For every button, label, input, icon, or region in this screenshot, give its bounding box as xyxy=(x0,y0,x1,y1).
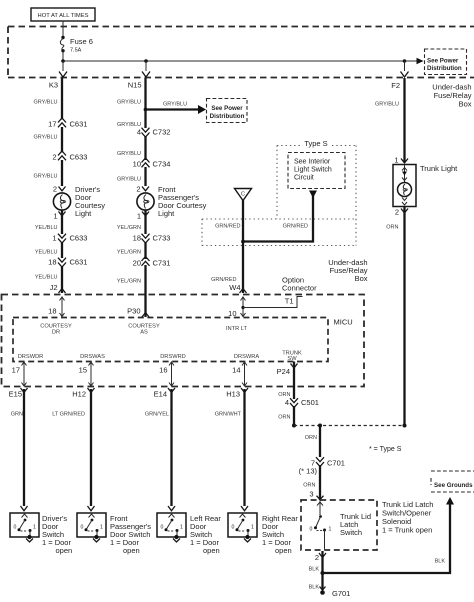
svg-text:GRY/BLU: GRY/BLU xyxy=(117,151,141,157)
svg-text:GRY/BLU: GRY/BLU xyxy=(33,100,57,106)
MICU pin 17 exit wire xyxy=(12,362,27,387)
trunk light pin 1 xyxy=(394,156,408,165)
svg-text:ORN: ORN xyxy=(303,483,315,489)
connector C701 pin 7 xyxy=(299,457,345,475)
connector H12 xyxy=(72,388,94,399)
svg-text:2: 2 xyxy=(136,185,140,194)
svg-text:Box: Box xyxy=(355,274,368,283)
connector P30 xyxy=(127,307,149,318)
connector C732 pin 4 xyxy=(137,128,171,138)
wire arrow branch to see power distribution xyxy=(146,102,207,115)
wire GRY/BLU junction-C732 xyxy=(117,110,146,129)
wire GRY/BLU C732-C734 xyxy=(117,136,146,160)
svg-text:Light: Light xyxy=(75,209,92,218)
wire GRN/RED C-junction xyxy=(215,200,243,293)
svg-text:* = Type S: * = Type S xyxy=(369,446,402,453)
switch front passenger's door switch xyxy=(77,513,106,539)
svg-text:See Interior: See Interior xyxy=(294,159,331,166)
svg-text:DRSWRD: DRSWRD xyxy=(160,354,186,360)
svg-text:1: 1 xyxy=(137,212,141,221)
svg-text:0: 0 xyxy=(161,525,164,531)
svg-text:14: 14 xyxy=(232,366,240,375)
wire GRN/YEL to left rear door switch xyxy=(145,389,175,511)
wire ORN dashed jumper xyxy=(294,425,405,427)
svg-text:ORN: ORN xyxy=(386,225,398,231)
label trunk lid latch switch/opener solenoid xyxy=(382,500,433,535)
svg-text:GRY/BLU: GRY/BLU xyxy=(117,177,141,183)
svg-text:DR: DR xyxy=(52,330,60,336)
connector N15 xyxy=(128,61,150,90)
svg-text:C: C xyxy=(241,192,245,198)
wire BLK latch-junction xyxy=(309,551,323,573)
svg-text:C633: C633 xyxy=(70,153,88,162)
label HOT AT ALL TIMES xyxy=(31,8,95,21)
svg-text:F2: F2 xyxy=(391,81,400,90)
svg-text:C733: C733 xyxy=(153,234,171,243)
svg-text:C731: C731 xyxy=(153,259,171,268)
MICU pin name COURTESY AS xyxy=(128,324,160,336)
junction GRY/BLU branch xyxy=(144,108,148,112)
wire LT GRN/RED to front passenger's door switch xyxy=(52,389,94,511)
wire GRN/RED junction to interior light switch xyxy=(243,193,313,242)
junction F2 tap xyxy=(403,59,407,63)
svg-text:T1: T1 xyxy=(285,297,294,306)
MICU pin name TRUNK SW xyxy=(282,351,302,363)
svg-text:YEL/GRN: YEL/GRN xyxy=(117,279,141,285)
MICU pin name DRSWRA xyxy=(234,354,259,360)
svg-text:0: 0 xyxy=(310,527,313,533)
connector E15 xyxy=(9,388,28,399)
junction ORN mid xyxy=(318,424,322,428)
connector C731 pin 20 xyxy=(133,257,171,268)
MICU pin name INTR LT xyxy=(226,326,248,332)
switch trunk lid latch switch internals xyxy=(310,500,332,550)
svg-text:GRN/RED: GRN/RED xyxy=(211,277,236,283)
fuse Fuse 6 7.5A xyxy=(60,36,93,61)
svg-text:Light: Light xyxy=(158,209,175,218)
svg-text:E15: E15 xyxy=(9,390,22,399)
svg-text:Fuse 6: Fuse 6 xyxy=(70,37,93,46)
svg-text:18: 18 xyxy=(48,307,56,316)
svg-text:open: open xyxy=(203,546,220,555)
MICU pin 14 exit wire xyxy=(232,362,247,387)
svg-text:BLK: BLK xyxy=(309,567,320,573)
svg-text:YEL/BLU: YEL/BLU xyxy=(35,225,58,231)
junction GRN/RED xyxy=(241,240,245,244)
lamp front passenger's door courtesy light pin 1 xyxy=(137,212,149,221)
svg-text:1 = Trunk open: 1 = Trunk open xyxy=(382,526,432,535)
wire ORN C501-junction xyxy=(278,406,294,426)
svg-text:2: 2 xyxy=(53,185,57,194)
svg-text:GRY/BLU: GRY/BLU xyxy=(33,174,57,180)
svg-text:LT GRN/RED: LT GRN/RED xyxy=(52,412,85,418)
connector F2 xyxy=(391,61,408,90)
svg-text:BLK: BLK xyxy=(309,585,320,591)
wire YEL/GRN lamp-C733 xyxy=(117,210,146,234)
svg-text:ORN: ORN xyxy=(278,415,290,421)
MICU pin 16 exit wire xyxy=(159,362,174,387)
see interior light switch circuit box xyxy=(288,153,345,189)
svg-text:open: open xyxy=(56,546,73,555)
svg-text:7.5A: 7.5A xyxy=(70,48,82,54)
svg-text:SW: SW xyxy=(287,356,297,362)
svg-text:(* 13): (* 13) xyxy=(299,467,318,476)
svg-text:15: 15 xyxy=(79,366,87,375)
svg-text:C501: C501 xyxy=(301,398,319,407)
svg-text:P30: P30 xyxy=(127,307,140,316)
arrow into interior light switch circuit xyxy=(309,191,317,199)
wire BLK junction to see grounds xyxy=(323,503,451,573)
connector C631 pin 18 xyxy=(48,258,87,268)
label option connector xyxy=(282,276,317,293)
svg-text:20: 20 xyxy=(133,259,141,268)
svg-text:J2: J2 xyxy=(50,283,58,292)
connector C734 pin 10 xyxy=(133,158,171,169)
svg-text:GRN/RED: GRN/RED xyxy=(283,224,308,230)
svg-text:16: 16 xyxy=(159,366,167,375)
connector C733 pin 18 xyxy=(133,234,171,244)
svg-text:G701: G701 xyxy=(332,589,350,598)
wire W4 to MICU pin 10 xyxy=(228,297,245,319)
arrow to see power distribution top xyxy=(405,58,424,64)
svg-text:GRN/RED: GRN/RED xyxy=(215,224,240,230)
svg-text:K3: K3 xyxy=(49,81,58,90)
svg-text:10: 10 xyxy=(228,309,236,318)
svg-text:3: 3 xyxy=(309,490,313,499)
svg-text:DRSWRA: DRSWRA xyxy=(234,354,259,360)
svg-text:C631: C631 xyxy=(70,258,88,267)
MICU box xyxy=(13,318,353,362)
svg-text:See Power: See Power xyxy=(211,105,243,112)
svg-text:BLK: BLK xyxy=(435,559,446,565)
wire F2 GRY/BLU to trunk light xyxy=(375,78,405,162)
svg-text:1: 1 xyxy=(394,156,398,165)
connector W4 xyxy=(211,277,246,293)
wire GRY/BLU C734-lamp xyxy=(117,167,146,186)
junction BLK xyxy=(320,571,324,575)
svg-text:See Power: See Power xyxy=(427,57,459,64)
svg-text:2: 2 xyxy=(315,553,319,562)
svg-text:1: 1 xyxy=(251,525,254,531)
latch switch pin 2 xyxy=(315,553,326,562)
MICU pin name DRSWDR xyxy=(18,354,44,360)
svg-text:10: 10 xyxy=(133,160,141,169)
ground under front passenger's door switch xyxy=(93,539,100,543)
bus wire from fuse xyxy=(63,60,406,62)
svg-text:1: 1 xyxy=(52,234,56,243)
svg-text:4: 4 xyxy=(137,128,141,137)
svg-text:Switch: Switch xyxy=(340,528,362,537)
MICU pin name DRSWAS xyxy=(80,354,105,360)
connector T1 option xyxy=(241,297,302,310)
svg-text:1: 1 xyxy=(53,212,57,221)
svg-text:GRY/BLU: GRY/BLU xyxy=(375,102,399,108)
switch driver's door switch xyxy=(10,513,39,539)
connector C triangle xyxy=(235,189,252,201)
svg-text:YEL/BLU: YEL/BLU xyxy=(35,250,58,256)
svg-text:GRY/BLU: GRY/BLU xyxy=(33,135,57,141)
wire YEL/GRN C731-P30 xyxy=(117,265,146,317)
dotted option region type S xyxy=(277,139,356,219)
wire ORN C701-latch switch xyxy=(303,465,320,500)
svg-text:Type S: Type S xyxy=(304,139,327,148)
junction ORN right xyxy=(403,424,407,428)
svg-text:MICU: MICU xyxy=(334,318,353,327)
lamp front passenger's door courtesy light pin 2 xyxy=(136,185,149,194)
svg-text:2: 2 xyxy=(395,208,399,217)
wire ORN junction-C701 xyxy=(305,426,320,458)
MICU pin 15 exit wire xyxy=(79,362,94,387)
svg-text:P24: P24 xyxy=(277,367,290,376)
dotted region GRN/RED harness xyxy=(202,219,356,246)
junction N15 tap xyxy=(144,59,148,63)
svg-text:18: 18 xyxy=(48,258,56,267)
wire hot feed to fuse xyxy=(62,21,64,37)
svg-text:N15: N15 xyxy=(128,81,142,90)
svg-text:0: 0 xyxy=(14,525,17,531)
wire YEL/BLU lamp-C633 xyxy=(35,210,62,234)
connector C501 pin 4 xyxy=(285,398,319,408)
svg-text:C732: C732 xyxy=(153,128,171,137)
connector J2 xyxy=(50,283,66,293)
svg-text:GRN/YEL: GRN/YEL xyxy=(145,412,169,418)
svg-text:open: open xyxy=(123,546,140,555)
lamp driver's door courtesy light pin 1 xyxy=(53,212,65,221)
svg-text:0: 0 xyxy=(232,525,235,531)
ground G701 xyxy=(320,589,350,598)
switch right rear door switch xyxy=(228,513,257,539)
label left rear door switch xyxy=(190,514,221,555)
svg-text:0: 0 xyxy=(81,525,84,531)
wire ORN trunk light to junction xyxy=(386,207,404,426)
svg-text:INTR LT: INTR LT xyxy=(226,326,248,332)
label driver's door switch xyxy=(42,514,72,555)
svg-text:DRSWDR: DRSWDR xyxy=(18,354,44,360)
see grounds box xyxy=(431,471,474,492)
ground under left rear door switch xyxy=(173,539,180,543)
svg-text:YEL/GRN: YEL/GRN xyxy=(117,250,141,256)
svg-text:1: 1 xyxy=(180,525,183,531)
wire GRY/BLU C631-C633 xyxy=(33,127,62,153)
connector K3 xyxy=(49,61,67,90)
svg-text:Distribution: Distribution xyxy=(210,113,245,120)
wire N15 GRY/BLU upper xyxy=(117,78,146,110)
lamp driver's door courtesy light pin 2 xyxy=(53,185,66,194)
MICU pin name DRSWRD xyxy=(160,354,186,360)
MICU pin name COURTESY DR xyxy=(40,324,72,336)
svg-text:18: 18 xyxy=(133,234,141,243)
svg-text:Distribution: Distribution xyxy=(427,65,462,72)
svg-text:GRN/WHT: GRN/WHT xyxy=(215,412,242,418)
wire GRY/BLU C633-lamp xyxy=(33,160,62,186)
wire YEL/GRN C733-C731 xyxy=(117,242,146,259)
wire GRN/WHT to right rear door switch xyxy=(215,389,248,511)
svg-text:C701: C701 xyxy=(327,459,345,468)
svg-text:ORN: ORN xyxy=(305,435,317,441)
switch trunk lid latch switch box xyxy=(301,500,377,550)
connector P24 xyxy=(277,364,298,377)
svg-text:YEL/GRN: YEL/GRN xyxy=(117,225,141,231)
wire GRN to driver's door switch xyxy=(11,389,28,511)
svg-text:See Grounds: See Grounds xyxy=(434,482,473,489)
lamp trunk light xyxy=(393,164,458,207)
wire J2 to MICU pin 18 xyxy=(48,297,64,318)
svg-text:GRY/BLU: GRY/BLU xyxy=(117,100,141,106)
svg-text:Trunk Light: Trunk Light xyxy=(420,164,458,173)
svg-text:1: 1 xyxy=(329,527,332,533)
switch left rear door switch xyxy=(157,513,186,539)
lamp front passenger's door courtesy light xyxy=(137,185,207,218)
svg-text:GRY/BLU: GRY/BLU xyxy=(163,102,187,108)
under-dash fuse/relay box top boundary xyxy=(8,27,474,78)
svg-text:W4: W4 xyxy=(229,283,240,292)
trunk light pin 2 xyxy=(395,208,408,217)
svg-text:C734: C734 xyxy=(153,160,171,169)
svg-text:4: 4 xyxy=(285,398,289,407)
svg-text:Circuit: Circuit xyxy=(294,175,314,182)
under-dash fuse/relay box lower boundary xyxy=(2,295,365,387)
svg-text:DRSWAS: DRSWAS xyxy=(80,354,105,360)
svg-text:C633: C633 xyxy=(70,234,88,243)
junction fuse to bus xyxy=(61,59,65,63)
connector E14 xyxy=(154,388,175,399)
svg-text:2: 2 xyxy=(52,153,56,162)
connector C631 pin 17 xyxy=(48,118,87,129)
wire YEL/BLU C633-C631 xyxy=(35,242,62,258)
svg-text:YEL/BLU: YEL/BLU xyxy=(35,275,58,281)
wire K3 GRY/BLU upper xyxy=(33,78,62,120)
svg-text:C631: C631 xyxy=(70,120,88,129)
ground under right rear door switch xyxy=(244,539,251,543)
wire BLK junction-G701 xyxy=(309,573,326,591)
svg-text:AS: AS xyxy=(140,330,148,336)
see power distribution box top right xyxy=(425,49,467,75)
lamp driver's door courtesy light xyxy=(53,185,105,218)
svg-text:17: 17 xyxy=(48,120,56,129)
connector H13 xyxy=(226,388,248,399)
svg-text:E14: E14 xyxy=(154,390,167,399)
svg-text:Light Switch: Light Switch xyxy=(294,167,332,174)
arrow to see grounds xyxy=(446,497,454,505)
label type S footnote xyxy=(369,446,402,453)
svg-text:1: 1 xyxy=(33,525,36,531)
label right rear door switch xyxy=(262,514,298,555)
svg-text:17: 17 xyxy=(12,366,20,375)
latch switch pin 3 xyxy=(309,490,323,500)
label under-dash fuse/relay box mid xyxy=(328,258,367,283)
svg-text:Connector: Connector xyxy=(282,284,317,293)
svg-text:H13: H13 xyxy=(226,390,240,399)
svg-text:HOT AT ALL TIMES: HOT AT ALL TIMES xyxy=(38,13,89,19)
svg-text:GRN: GRN xyxy=(11,412,23,418)
ground under driver's door switch xyxy=(26,539,33,543)
label front passenger's door switch xyxy=(110,514,151,555)
connector C633 pin 1 xyxy=(52,234,87,244)
junction ORN left xyxy=(292,424,296,428)
svg-text:open: open xyxy=(275,546,292,555)
svg-text:1: 1 xyxy=(100,525,103,531)
see power distribution box mid xyxy=(207,99,248,123)
label under-dash fuse/relay box top right xyxy=(432,83,471,109)
wire ORN P24-C501 xyxy=(278,362,294,400)
svg-text:Box: Box xyxy=(459,100,472,109)
svg-text:H12: H12 xyxy=(72,390,86,399)
wire YEL/BLU C631-J2 xyxy=(35,266,62,293)
connector C633 pin 2 xyxy=(52,151,87,162)
